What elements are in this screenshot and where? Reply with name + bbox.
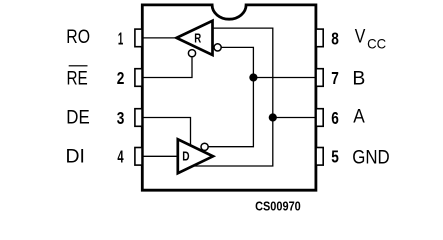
svg-text:RO: RO	[66, 25, 90, 47]
svg-text:8: 8	[331, 30, 339, 49]
svg-text:DE: DE	[66, 107, 89, 128]
svg-text:D: D	[182, 149, 189, 163]
svg-text:4: 4	[117, 148, 124, 167]
svg-text:V: V	[355, 25, 366, 47]
svg-text:1: 1	[118, 29, 123, 49]
svg-text:DI: DI	[66, 145, 85, 167]
svg-text:CS00970: CS00970	[255, 199, 301, 214]
svg-text:A: A	[353, 105, 365, 127]
svg-text:R: R	[194, 32, 202, 46]
svg-text:7: 7	[331, 70, 339, 89]
svg-text:5: 5	[331, 148, 339, 167]
svg-text:CC: CC	[367, 36, 386, 51]
svg-text:GND: GND	[352, 146, 389, 167]
svg-text:B: B	[352, 67, 365, 89]
svg-text:6: 6	[331, 110, 339, 129]
svg-text:2: 2	[117, 70, 125, 89]
svg-text:3: 3	[117, 110, 125, 129]
svg-text:RE: RE	[67, 67, 88, 89]
